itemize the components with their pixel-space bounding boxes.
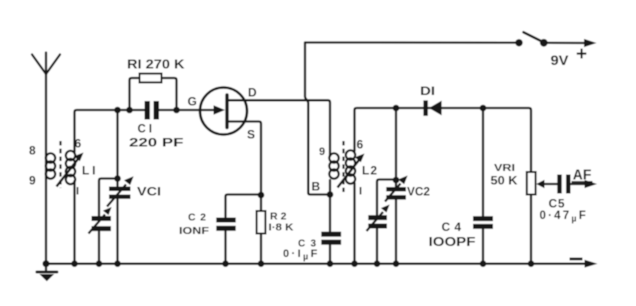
svg-text:L2: L2 <box>362 164 377 178</box>
svg-text:VCI: VCI <box>137 187 161 199</box>
svg-text:AF: AF <box>573 167 592 184</box>
svg-text:RI 270 K: RI 270 K <box>127 58 185 72</box>
svg-text:S: S <box>247 128 255 142</box>
svg-text:IOOPF: IOOPF <box>429 235 476 249</box>
svg-text:+: + <box>576 44 587 65</box>
svg-text:8: 8 <box>29 144 36 158</box>
svg-text:LI: LI <box>82 164 96 178</box>
svg-text:IONF: IONF <box>179 225 210 237</box>
svg-text:DI: DI <box>420 86 435 98</box>
svg-text:CI: CI <box>138 124 153 136</box>
svg-text:0·IµF: 0·IµF <box>283 248 320 262</box>
svg-text:6: 6 <box>75 137 82 151</box>
svg-text:VRI: VRI <box>494 163 515 174</box>
svg-text:9: 9 <box>29 174 36 188</box>
svg-text:I: I <box>359 186 362 198</box>
svg-text:220 PF: 220 PF <box>129 138 184 150</box>
svg-text:B: B <box>312 180 321 194</box>
svg-text:9: 9 <box>319 146 325 158</box>
svg-text:9V: 9V <box>551 52 570 68</box>
svg-text:I: I <box>76 186 79 198</box>
svg-text:C5: C5 <box>549 197 565 211</box>
svg-text:0·47µF: 0·47µF <box>540 210 588 224</box>
svg-text:D: D <box>248 86 257 100</box>
svg-text:50 K: 50 K <box>491 173 518 187</box>
svg-text:G: G <box>188 95 197 109</box>
svg-text:I·8 K: I·8 K <box>269 222 294 234</box>
svg-text:VC2: VC2 <box>407 187 430 199</box>
svg-text:6: 6 <box>357 138 364 152</box>
